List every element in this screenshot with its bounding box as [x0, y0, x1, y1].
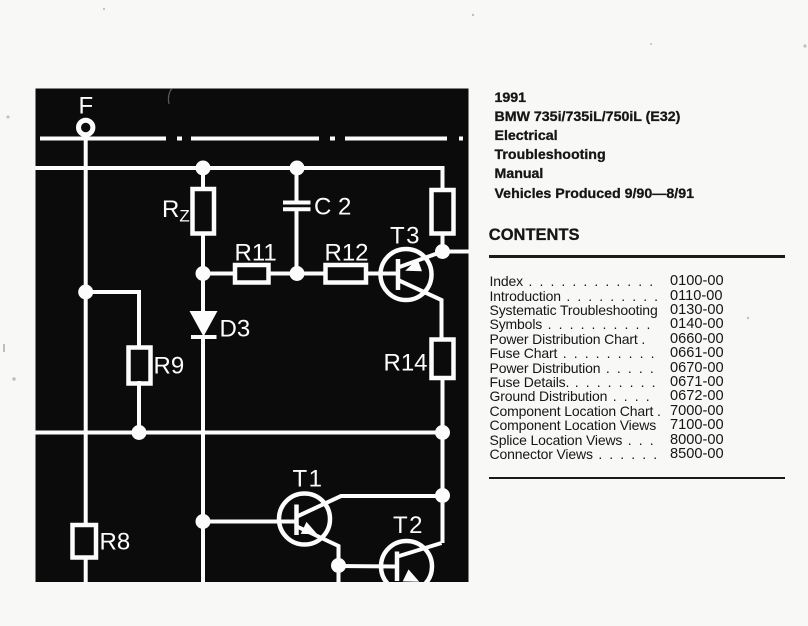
wire R12 left — [297, 272, 325, 276]
wire Rz bottom to D3 — [201, 232, 205, 313]
node T3 emitter — [435, 244, 450, 259]
wire D3 down to bottom edge — [201, 338, 205, 583]
T3 emitter lead — [398, 252, 443, 268]
wire R11 right — [269, 272, 298, 276]
wire T1 base lead — [203, 520, 296, 524]
resistor collector (top right) — [432, 190, 454, 234]
resistor R12 — [326, 265, 367, 283]
node R9 bottom — [132, 425, 147, 440]
capacitor C2 plate bottom — [283, 207, 311, 211]
T1 emitter lead — [297, 527, 339, 566]
T2 collector lead — [398, 543, 442, 557]
resistor R8 — [73, 525, 97, 558]
T2 emitter arrow — [403, 569, 420, 581]
wire T1 emitter node to T2 base — [339, 564, 397, 569]
bus line dash-dot — [40, 137, 463, 141]
wire node to panel right edge — [443, 250, 469, 254]
T3 emitter arrow — [405, 259, 422, 271]
resistor Rz — [193, 189, 215, 234]
diode D3 — [190, 311, 218, 339]
node C2 top — [290, 161, 305, 176]
T1 emitter arrow — [301, 522, 318, 534]
transistor T2 base bar — [395, 552, 400, 582]
node Rz top — [196, 161, 211, 176]
wire Rz top — [201, 168, 205, 190]
node R11 right — [290, 266, 305, 281]
wire R9 bottom — [137, 381, 141, 433]
wire R11 left — [203, 272, 235, 276]
contents list — [490, 274, 790, 461]
transistor T3 circle — [381, 249, 432, 300]
wire R14 bottom — [441, 378, 445, 433]
wire R14 node down — [441, 433, 445, 496]
title block — [495, 89, 695, 204]
top rail wire — [36, 168, 443, 190]
node T1 emitter — [331, 558, 346, 573]
node F branch — [78, 285, 93, 300]
transistor T1 circle — [279, 494, 330, 545]
transistor T3 base bar — [396, 259, 401, 290]
wire F vertical upper — [84, 135, 88, 525]
rule below list — [489, 477, 785, 480]
T1 collector lead — [297, 496, 443, 517]
resistor R11 — [235, 265, 269, 283]
capacitor C2 plate top — [283, 201, 311, 205]
wire C2 top — [295, 168, 299, 202]
wire R12 right to T3 base — [366, 272, 397, 276]
node R11 left — [196, 266, 211, 281]
schematic background panel — [36, 89, 469, 583]
wire collector node down — [441, 496, 445, 544]
T3 collector lead — [398, 280, 442, 340]
node T1 base — [196, 514, 211, 529]
node R14 bottom — [435, 425, 450, 440]
resistor R14 — [432, 340, 454, 379]
node collectors — [435, 488, 450, 503]
wire branch to R9 — [86, 292, 139, 348]
wire collector resistor bottom — [441, 234, 445, 252]
transistor T1 base bar — [294, 505, 299, 536]
fuse F terminal circle — [79, 120, 93, 134]
rule above list — [489, 255, 785, 258]
wire F vertical lower below R8 — [84, 557, 88, 582]
wire C2 bottom — [295, 210, 299, 274]
middle rail wire — [36, 431, 443, 435]
resistor R9 — [129, 348, 151, 384]
transistor T2 circle — [381, 541, 432, 592]
contents heading — [489, 226, 580, 245]
wire T1 emitter node down — [337, 566, 341, 583]
